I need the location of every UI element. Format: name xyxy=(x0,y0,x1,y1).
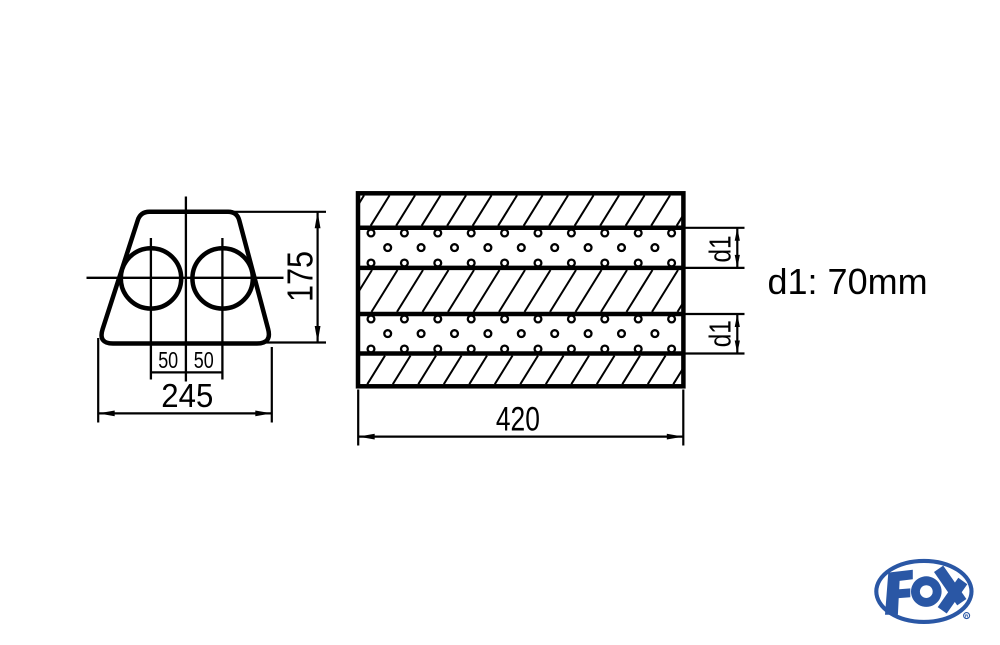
FOX logo ellipse xyxy=(876,561,971,622)
dimension 175 line with arrows xyxy=(315,212,321,343)
perforation dots lower pipe band xyxy=(368,316,675,353)
muffler body trapezoid outline xyxy=(102,212,269,344)
left pipe circle xyxy=(121,248,181,308)
wire right pipe vertical axis xyxy=(221,238,223,380)
muffler body rectangle outline xyxy=(358,193,683,386)
dimension 245 extension line right xyxy=(271,347,273,423)
FOX logo letter X xyxy=(934,566,967,614)
dimension d1 lower extension lines xyxy=(685,314,744,354)
FOX logo registered mark xyxy=(964,613,970,620)
svg-text:175: 175 xyxy=(280,251,321,302)
dimension 50 left line xyxy=(151,371,185,373)
dimension 245 extension line left xyxy=(97,338,99,423)
FOX logo letter O xyxy=(911,576,942,607)
pipe wall line 1 xyxy=(358,226,683,231)
svg-text:245: 245 xyxy=(161,377,213,414)
svg-text:420: 420 xyxy=(496,401,540,439)
label d1 upper xyxy=(703,236,738,263)
wire left pipe vertical axis xyxy=(150,238,152,380)
label 50 left xyxy=(158,347,178,373)
svg-text:d1: d1 xyxy=(703,320,738,347)
pipe wall line 3 xyxy=(358,312,683,317)
svg-text:50: 50 xyxy=(194,347,214,373)
label 50 right xyxy=(194,347,214,373)
label 245 xyxy=(161,377,213,414)
dimension 420 extension line right xyxy=(682,390,684,446)
svg-text:d1: 70mm: d1: 70mm xyxy=(768,261,928,302)
hatching top shell band xyxy=(358,195,683,225)
label d1 lower xyxy=(703,320,738,347)
svg-text:50: 50 xyxy=(158,347,178,373)
label d1: 70mm xyxy=(768,261,928,302)
wire horizontal centerline xyxy=(87,277,284,279)
dimension d1 lower line with arrows xyxy=(735,314,740,354)
dimension 420 extension line left xyxy=(357,390,359,446)
perforation dots upper pipe band xyxy=(368,230,675,267)
label 420 xyxy=(496,401,540,439)
dimension 50 right line xyxy=(186,371,222,373)
right pipe circle xyxy=(192,248,252,308)
svg-text:d1: d1 xyxy=(703,236,738,263)
dimension 245 line with arrows xyxy=(98,411,272,417)
hatching middle shell band xyxy=(358,270,683,312)
dimension d1 upper line with arrows xyxy=(735,228,740,268)
dimension 420 line with arrows xyxy=(358,434,683,440)
pipe wall line 4 xyxy=(358,351,683,356)
dimension 175 extension line top xyxy=(232,211,326,213)
wire center vertical axis xyxy=(185,197,187,382)
svg-text:R: R xyxy=(965,614,969,620)
hatching bottom shell band xyxy=(358,356,683,385)
FOX logo letter F xyxy=(885,570,913,615)
label 175 xyxy=(280,251,321,302)
dimension d1 upper extension lines xyxy=(685,228,744,268)
dimension 175 extension line bottom xyxy=(262,341,326,343)
pipe wall line 2 xyxy=(358,266,683,271)
